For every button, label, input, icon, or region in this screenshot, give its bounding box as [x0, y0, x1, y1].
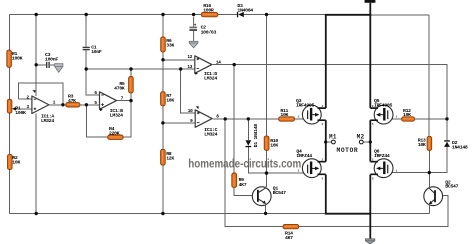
resistor R10	[264, 136, 278, 150]
svg-text:470K: 470K	[114, 85, 125, 91]
svg-text:LM324: LM324	[204, 76, 217, 82]
wire IC1C output to R11	[213, 118, 279, 120]
wire R1 to P1	[9, 67, 11, 99]
svg-text:220K: 220K	[109, 130, 120, 136]
svg-text:100/63: 100/63	[201, 29, 217, 35]
capacitor C2 electrolytic	[189, 17, 216, 42]
node top rail C3 junction	[35, 13, 38, 16]
wire top rail right section to right feed	[370, 14, 429, 16]
node top rail R16-C2 junction	[192, 13, 195, 16]
node top rail R6 junction	[161, 13, 164, 16]
wire pin 10 of IC1C from oscillator node	[181, 69, 196, 113]
node ground rail IC1A V-	[35, 212, 38, 215]
node ground rail R8	[161, 212, 164, 215]
wire oscillator node down to pin 6 of IC1B	[86, 69, 99, 95]
diode D3 1N4004	[237, 3, 253, 17]
svg-text:5: 5	[372, 177, 374, 180]
wire IC1A output to R3	[49, 104, 66, 106]
wire R10 bottom to Q1 collector node	[266, 150, 268, 187]
wire C3 node to capacitor plate	[36, 64, 46, 66]
svg-text:BC547: BC547	[445, 184, 458, 190]
node IC1B output	[129, 99, 132, 102]
wire oscillator node horizontal to pin 13 of IC1D	[86, 68, 195, 70]
resistor R1	[7, 50, 23, 67]
op-amp IC1:D	[187, 55, 221, 81]
node IC1A output	[61, 103, 64, 106]
wire R9 column from IC1D output	[233, 65, 235, 173]
svg-text:2: 2	[372, 159, 374, 162]
wire D2 drop from gate junction	[446, 119, 448, 140]
svg-text:10: 10	[188, 109, 193, 114]
wire IC1A feedback loop	[18, 83, 63, 105]
resistor R11	[279, 108, 295, 121]
resistor R9	[232, 173, 247, 188]
wire bold top bus between legs	[325, 14, 371, 16]
resistor R14	[283, 224, 299, 241]
resistor R13	[418, 136, 432, 150]
svg-text:10K: 10K	[403, 112, 411, 118]
transistor Q5 IRF4905	[370, 98, 397, 126]
wire bold left leg middle	[325, 120, 327, 161]
svg-text:LM324: LM324	[204, 132, 217, 138]
transistor Q2 BC547	[424, 179, 459, 205]
wire R12 to right gate junction	[415, 118, 449, 120]
svg-text:MOTOR: MOTOR	[337, 147, 359, 154]
wire pin 2 of IC1A	[18, 98, 32, 100]
node C3 tee	[35, 63, 38, 66]
svg-text:2: 2	[322, 105, 324, 108]
transistor Q6 IRFZ44	[370, 149, 397, 181]
node Q2 collector junction	[428, 171, 431, 174]
potentiometer P1	[7, 99, 26, 116]
transistor Q4 IRFZ44	[296, 149, 325, 181]
battery positive supply terminal	[365, 0, 376, 3]
transistor Q3 IRF4905	[296, 98, 326, 126]
wire R5 top link	[130, 69, 132, 77]
node IC1C output R14 tee	[224, 117, 227, 120]
svg-text:100R: 100R	[203, 8, 214, 14]
wire pin 9 of IC1C from divider	[163, 122, 195, 124]
svg-text:10nF: 10nF	[91, 49, 102, 55]
svg-text:LM324: LM324	[41, 118, 54, 124]
wire right feed column down to R13	[428, 15, 430, 136]
wire pin 12 of IC1D from divider	[163, 59, 195, 61]
svg-text:LM324: LM324	[110, 112, 123, 118]
wire R5 bottom to IC1B output node	[130, 93, 132, 101]
wire IC1B output to feedback node	[117, 100, 131, 102]
svg-text:IRF4905: IRF4905	[374, 102, 392, 108]
svg-text:M1: M1	[329, 133, 337, 140]
wire R9 bottom to Q1 base	[234, 187, 258, 195]
svg-text:100K: 100K	[15, 110, 26, 116]
wire bold ground bus	[325, 213, 370, 215]
wire R2 to ground rail	[9, 170, 11, 214]
wire bold right leg middle	[369, 120, 371, 161]
wire R6 column from rail	[162, 15, 164, 37]
wire bold right leg upper	[369, 15, 371, 108]
wire C3 to ground symbol	[50, 64, 56, 66]
wire ground rail thin right section	[370, 212, 429, 214]
wire D1 drop from gate line	[247, 119, 249, 140]
resistor R7	[161, 92, 175, 106]
wire C3 node column from rail	[35, 15, 37, 65]
wire R7 bottom through pin9 tee to R8	[162, 106, 164, 150]
node oscillator C1 bottom	[85, 67, 88, 70]
wire D1 bottom elbow and Q4 gate line	[248, 147, 307, 173]
ground after C3	[55, 64, 63, 73]
node top rail R10 junction	[265, 13, 268, 16]
wire P1 to R2	[9, 113, 11, 154]
wire R4 left link down from pin 5 node	[86, 105, 107, 137]
svg-text:12: 12	[187, 55, 192, 60]
capacitor C1	[83, 45, 102, 55]
node divider pin12 tee	[161, 58, 164, 61]
wire Q2 emitter to ground rail	[428, 205, 430, 213]
wire C1 column from rail	[85, 15, 87, 47]
transistor Q1 BC547	[252, 186, 286, 206]
wire bold right leg lower to ground	[369, 175, 371, 239]
op-amp IC1:A	[27, 90, 56, 124]
wire right gate feed down	[446, 65, 448, 119]
svg-text:10K: 10K	[280, 112, 288, 118]
wire M2 stub	[363, 141, 370, 143]
resistor R16	[201, 3, 217, 17]
motor label	[337, 147, 359, 154]
wire V+ pin of IC1A from C3 node	[35, 65, 37, 96]
svg-text:M2: M2	[357, 133, 365, 140]
svg-text:10K: 10K	[166, 97, 174, 103]
wire C1 bottom to oscillator node	[85, 50, 87, 69]
capacitor C3	[45, 52, 58, 68]
node pin5 R4 tee	[85, 103, 88, 106]
svg-text:12K: 12K	[166, 156, 174, 162]
wire R3 to pin 5 of IC1B	[80, 104, 100, 106]
wire ground rail thin left section	[10, 213, 326, 215]
svg-text:10K: 10K	[12, 160, 20, 166]
resistor R5	[114, 77, 133, 93]
wire R11 to Q3 gate	[295, 118, 308, 120]
node R5 top tee	[129, 67, 132, 70]
wire R14 net from IC1C output to Q2 base	[225, 119, 448, 227]
node divider pin9 tee	[161, 121, 164, 124]
diode D2 1N4148	[444, 140, 468, 150]
svg-text:4K7: 4K7	[239, 182, 247, 188]
resistor R8	[161, 149, 175, 165]
resistor R12	[402, 108, 415, 121]
svg-text:1N4148: 1N4148	[452, 145, 468, 151]
svg-text:1: 1	[396, 116, 398, 119]
node pin10 link tee	[179, 67, 182, 70]
op-amp IC1:B	[94, 91, 123, 118]
wire V- pin of IC1A to ground rail	[35, 114, 37, 214]
node M1 junction on left leg	[324, 140, 327, 143]
svg-text:13: 13	[187, 65, 192, 70]
svg-text:100K: 100K	[12, 56, 23, 62]
resistor R6	[161, 37, 175, 52]
watermark homemade-circuits.com	[188, 158, 301, 171]
wire Q1 emitter to ground rail	[265, 205, 267, 214]
node IC1D output R9 tee	[233, 63, 236, 66]
svg-text:IRFZ44: IRFZ44	[374, 153, 390, 159]
wire IC1D output long run to right side	[213, 64, 448, 66]
svg-text:5: 5	[322, 177, 324, 180]
svg-text:47K: 47K	[68, 98, 76, 104]
node gate line D1 tee	[247, 117, 250, 120]
ground below C2	[189, 41, 198, 48]
svg-text:100nF: 100nF	[45, 57, 58, 63]
svg-text:D1 1N4148: D1 1N4148	[253, 124, 259, 148]
wire R4 right link up to IC1B output node	[123, 101, 131, 138]
motor terminal M2	[357, 133, 365, 144]
svg-text:BC547: BC547	[273, 190, 286, 196]
wire R8 bottom to ground rail	[162, 165, 164, 213]
svg-text:2: 2	[322, 159, 324, 162]
wire D2 bottom elbow to Q2 collector node	[429, 147, 447, 173]
wire bold supply drop from terminal	[369, 3, 371, 15]
wire R6 bottom through pin12 tee to R7	[162, 52, 164, 92]
wire Q5 gate to R12	[388, 118, 402, 120]
resistor R2	[8, 154, 21, 169]
wire M1 stub	[326, 141, 332, 143]
wire top rail after D3 to bold junction	[243, 14, 326, 16]
diode D1 1N4148	[245, 124, 259, 148]
wire bold left leg lower	[325, 175, 327, 214]
wire left column rail to R1	[9, 15, 11, 51]
svg-text:2: 2	[372, 105, 374, 108]
motor terminal M1	[329, 133, 337, 144]
node M2 junction on right leg	[369, 140, 372, 143]
svg-text:1: 1	[396, 169, 398, 172]
wire Q6 gate line	[388, 172, 430, 174]
resistor R4	[108, 126, 123, 140]
svg-text:10K: 10K	[270, 142, 278, 148]
svg-text:homemade-circuits.com: homemade-circuits.com	[188, 158, 301, 171]
svg-text:5: 5	[322, 123, 324, 126]
wire pin 3 of IC1A from P1 wiper	[14, 108, 32, 110]
svg-text:14: 14	[216, 61, 221, 66]
resistor R3	[66, 93, 80, 107]
svg-text:5: 5	[372, 123, 374, 126]
wire bold left leg upper	[325, 15, 327, 108]
node top rail C1 junction	[85, 13, 88, 16]
svg-text:1: 1	[298, 116, 300, 119]
svg-text:4K7: 4K7	[285, 235, 293, 241]
wire R10 column from rail	[266, 15, 268, 137]
svg-text:IRF4905: IRF4905	[296, 102, 314, 108]
wire top supply rail left section	[10, 14, 238, 16]
node Q1 collector junction	[265, 171, 268, 174]
svg-text:10K: 10K	[418, 142, 426, 148]
op-amp IC1:C	[188, 106, 220, 137]
svg-text:33K: 33K	[166, 43, 174, 49]
node ground rail Q1 emitter	[264, 212, 267, 215]
wire R13 bottom to Q2 collector	[428, 150, 430, 187]
svg-text:1N4004: 1N4004	[237, 7, 253, 13]
ground at battery negative	[365, 239, 374, 244]
node right gate junction D2	[445, 117, 448, 120]
